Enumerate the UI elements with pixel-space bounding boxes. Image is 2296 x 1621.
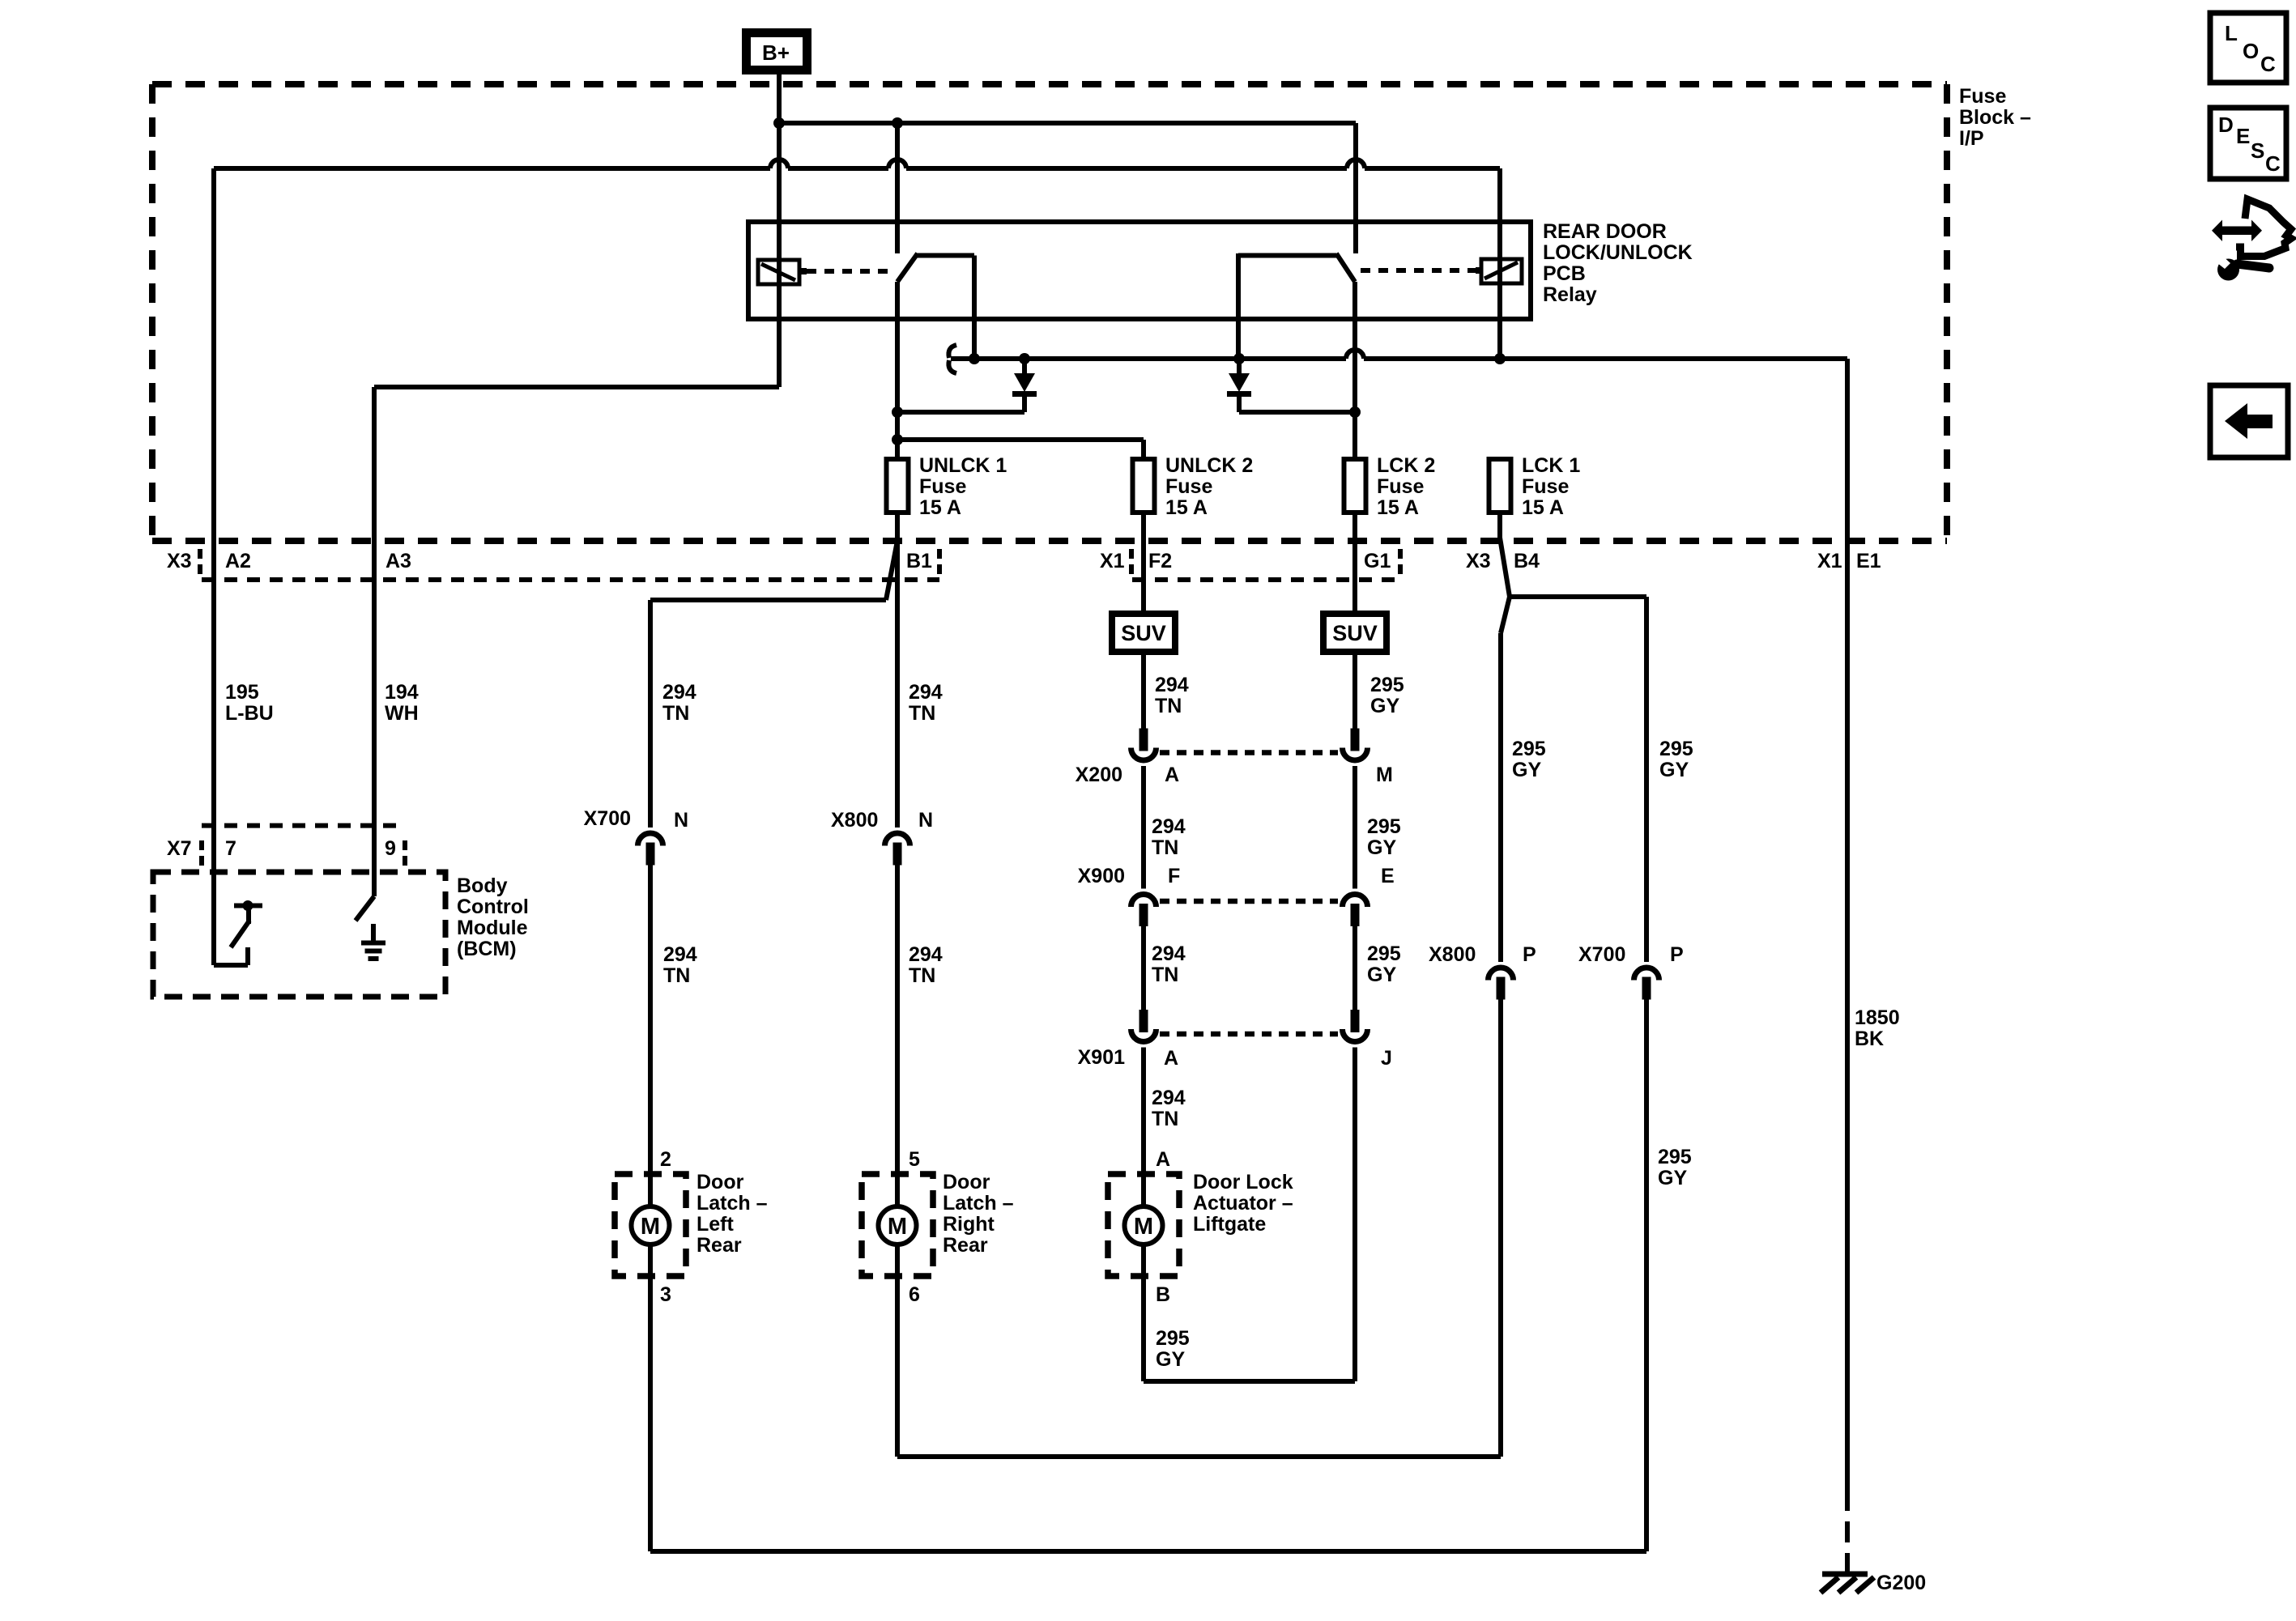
svg-text:E: E (1381, 865, 1395, 887)
svg-text:295: 295 (1367, 942, 1401, 965)
svg-text:X1: X1 (1100, 550, 1125, 572)
svg-text:F: F (1168, 865, 1180, 887)
svg-text:A3: A3 (386, 550, 411, 572)
svg-text:Relay: Relay (1543, 283, 1597, 306)
svg-text:BK: BK (1855, 1027, 1884, 1050)
svg-text:B1: B1 (906, 550, 932, 572)
svg-text:294: 294 (1155, 674, 1189, 696)
svg-text:GY: GY (1658, 1167, 1687, 1189)
svg-text:P: P (1523, 943, 1536, 966)
svg-text:F2: F2 (1148, 550, 1172, 572)
svg-text:S: S (2251, 138, 2264, 163)
svg-text:15 A: 15 A (1377, 496, 1419, 519)
svg-text:Module: Module (457, 917, 528, 939)
svg-text:Door: Door (696, 1171, 744, 1193)
svg-text:Fuse: Fuse (1522, 475, 1569, 498)
svg-text:SUV: SUV (1332, 621, 1378, 645)
svg-text:X900: X900 (1078, 865, 1125, 887)
svg-text:C: C (2260, 52, 2276, 76)
svg-text:7: 7 (225, 837, 236, 860)
svg-text:TN: TN (662, 702, 689, 725)
svg-text:Body: Body (457, 874, 508, 897)
svg-text:Block –: Block – (1959, 106, 2031, 129)
svg-text:X901: X901 (1078, 1046, 1125, 1069)
svg-text:294: 294 (909, 681, 943, 704)
svg-text:1850: 1850 (1855, 1006, 1900, 1029)
svg-text:P: P (1670, 943, 1684, 966)
svg-text:X200: X200 (1076, 764, 1122, 786)
svg-text:294: 294 (663, 943, 697, 966)
svg-text:294: 294 (909, 943, 943, 966)
svg-text:X3: X3 (167, 550, 192, 572)
svg-text:A2: A2 (225, 550, 251, 572)
svg-text:GY: GY (1367, 964, 1396, 986)
svg-text:294: 294 (1152, 1087, 1186, 1109)
svg-text:LCK 1: LCK 1 (1522, 454, 1580, 477)
svg-text:Fuse: Fuse (1377, 475, 1424, 498)
svg-text:X700: X700 (584, 807, 631, 830)
svg-text:195: 195 (225, 681, 259, 704)
svg-text:GY: GY (1370, 695, 1399, 717)
svg-text:X700: X700 (1578, 943, 1625, 966)
svg-text:E: E (2236, 124, 2250, 148)
svg-text:LCK 2: LCK 2 (1377, 454, 1435, 477)
svg-text:3: 3 (660, 1283, 671, 1306)
svg-text:X3: X3 (1466, 550, 1491, 572)
svg-text:(BCM): (BCM) (457, 938, 517, 960)
svg-text:Rear: Rear (696, 1234, 742, 1257)
svg-text:M: M (1134, 1214, 1153, 1240)
svg-text:X800: X800 (831, 809, 878, 832)
svg-text:WH: WH (385, 702, 419, 725)
svg-text:Latch –: Latch – (943, 1192, 1014, 1215)
svg-text:E1: E1 (1856, 550, 1881, 572)
svg-text:UNLCK 1: UNLCK 1 (919, 454, 1007, 477)
svg-text:5: 5 (909, 1148, 920, 1171)
svg-text:X1: X1 (1817, 550, 1842, 572)
svg-text:A: A (1156, 1148, 1170, 1171)
svg-text:GY: GY (1156, 1348, 1185, 1371)
svg-text:I/P: I/P (1959, 127, 1984, 150)
svg-text:Door: Door (943, 1171, 990, 1193)
svg-text:Rear: Rear (943, 1234, 988, 1257)
svg-text:294: 294 (662, 681, 696, 704)
svg-text:Control: Control (457, 896, 529, 918)
svg-text:295: 295 (1512, 738, 1546, 760)
svg-text:295: 295 (1367, 815, 1401, 838)
svg-text:Fuse: Fuse (1165, 475, 1212, 498)
svg-text:Fuse: Fuse (919, 475, 966, 498)
svg-text:N: N (918, 809, 933, 832)
svg-text:L: L (2225, 21, 2238, 45)
svg-text:C: C (2265, 151, 2281, 176)
svg-text:TN: TN (1152, 964, 1178, 986)
svg-text:Actuator –: Actuator – (1193, 1192, 1293, 1215)
svg-text:Door Lock: Door Lock (1193, 1171, 1293, 1193)
svg-text:TN: TN (1152, 1108, 1178, 1130)
svg-text:M: M (888, 1214, 907, 1240)
svg-text:M: M (1376, 764, 1393, 786)
svg-text:A: A (1165, 764, 1179, 786)
svg-text:G1: G1 (1364, 550, 1391, 572)
svg-text:15 A: 15 A (919, 496, 961, 519)
svg-text:295: 295 (1370, 674, 1404, 696)
svg-text:295: 295 (1156, 1327, 1190, 1350)
svg-text:B: B (1156, 1283, 1170, 1306)
svg-text:G200: G200 (1876, 1572, 1926, 1594)
svg-text:Right: Right (943, 1213, 995, 1236)
svg-text:TN: TN (909, 702, 935, 725)
svg-text:O: O (2243, 39, 2259, 63)
svg-text:J: J (1381, 1047, 1392, 1070)
svg-text:X800: X800 (1429, 943, 1476, 966)
svg-text:GY: GY (1512, 759, 1541, 781)
svg-text:Fuse: Fuse (1959, 85, 2006, 108)
svg-text:N: N (674, 809, 688, 832)
svg-text:B+: B+ (762, 40, 790, 65)
svg-text:15 A: 15 A (1522, 496, 1564, 519)
svg-text:X7: X7 (167, 837, 192, 860)
svg-text:PCB: PCB (1543, 262, 1586, 285)
svg-text:M: M (641, 1214, 660, 1240)
svg-text:A: A (1164, 1047, 1178, 1070)
svg-text:B4: B4 (1514, 550, 1540, 572)
svg-text:D: D (2218, 113, 2234, 137)
svg-text:15 A: 15 A (1165, 496, 1208, 519)
svg-text:TN: TN (909, 964, 935, 987)
svg-text:194: 194 (385, 681, 419, 704)
svg-text:295: 295 (1659, 738, 1693, 760)
svg-text:LOCK/UNLOCK: LOCK/UNLOCK (1543, 241, 1693, 264)
svg-text:UNLCK 2: UNLCK 2 (1165, 454, 1253, 477)
svg-text:Liftgate: Liftgate (1193, 1213, 1266, 1236)
svg-text:TN: TN (663, 964, 690, 987)
svg-text:Left: Left (696, 1213, 735, 1236)
svg-text:TN: TN (1155, 695, 1182, 717)
svg-text:GY: GY (1367, 836, 1396, 859)
svg-text:L-BU: L-BU (225, 702, 274, 725)
svg-text:Latch –: Latch – (696, 1192, 768, 1215)
svg-text:294: 294 (1152, 942, 1186, 965)
svg-text:GY: GY (1659, 759, 1689, 781)
svg-text:9: 9 (385, 837, 396, 860)
svg-text:294: 294 (1152, 815, 1186, 838)
svg-text:REAR DOOR: REAR DOOR (1543, 220, 1667, 243)
svg-text:SUV: SUV (1121, 621, 1166, 645)
svg-text:6: 6 (909, 1283, 920, 1306)
svg-text:TN: TN (1152, 836, 1178, 859)
svg-text:2: 2 (660, 1148, 671, 1171)
svg-text:295: 295 (1658, 1146, 1692, 1168)
